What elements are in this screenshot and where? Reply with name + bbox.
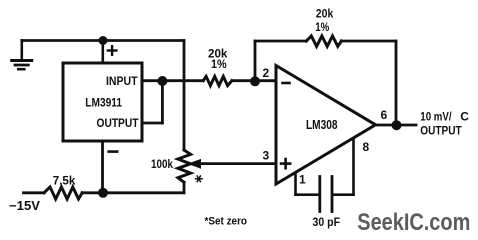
svg-text:−15V: −15V [9,199,41,213]
svg-text:LM3911: LM3911 [85,96,122,110]
svg-text:*Set zero: *Set zero [205,216,248,228]
svg-text:30 pF: 30 pF [313,215,341,229]
svg-text:OUTPUT: OUTPUT [97,116,140,130]
svg-text:SeekIC.com: SeekIC.com [357,209,470,236]
svg-text:1: 1 [299,173,306,187]
svg-text:LM308: LM308 [306,117,338,132]
svg-text:100k: 100k [151,157,173,171]
svg-text:6: 6 [381,108,388,122]
svg-text:8: 8 [363,140,370,154]
svg-text:20k: 20k [316,7,334,21]
svg-text:7.5k: 7.5k [53,174,76,188]
svg-text:1%: 1% [211,57,227,71]
svg-text:1%: 1% [315,20,329,34]
svg-text:OUTPUT: OUTPUT [420,123,462,137]
svg-text:3: 3 [263,149,270,163]
svg-text:C: C [460,110,469,124]
svg-text:2: 2 [263,66,270,80]
svg-text:10 mV/: 10 mV/ [420,110,452,124]
svg-text:INPUT: INPUT [106,74,138,88]
